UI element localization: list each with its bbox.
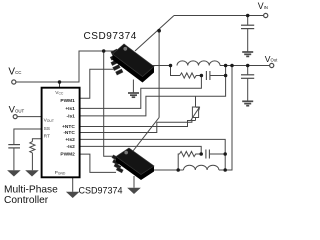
wire phase2 riser to Vout rail bbox=[225, 66, 232, 171]
controller U1 box bbox=[42, 88, 80, 178]
node switch 2 junction bbox=[176, 168, 180, 172]
svg-text:CSD97374: CSD97374 bbox=[84, 31, 137, 42]
svg-text:SS: SS bbox=[44, 126, 50, 132]
capacitor Cin bbox=[241, 25, 254, 28]
wire +Is2 sense bbox=[80, 139, 226, 154]
node rail phase2 junction bbox=[230, 64, 234, 68]
wire Cin stick bbox=[247, 16, 249, 26]
ground U3 bbox=[129, 188, 140, 193]
node rail Is1 junction bbox=[224, 64, 228, 68]
capacitor Cout bbox=[241, 75, 254, 79]
node C1 right junction bbox=[224, 74, 228, 78]
resistor R1 bbox=[180, 73, 201, 78]
wire RC2 sense branch bbox=[178, 154, 179, 170]
ground Pgnd bbox=[67, 192, 78, 197]
wire diagonal Vin to U3 bbox=[133, 118, 159, 152]
wire L2 right stub bbox=[219, 169, 225, 171]
wire +Is1 sense bbox=[80, 76, 202, 109]
thermistor RNTC bbox=[191, 106, 200, 121]
wire Vin vertical distribution bbox=[158, 31, 160, 118]
ground RT resistor bbox=[27, 171, 38, 176]
resistor RT bbox=[30, 142, 35, 153]
ground Cin bbox=[242, 52, 253, 56]
svg-text:CSD97374: CSD97374 bbox=[79, 186, 123, 196]
power stage U2 CSD97374 package bbox=[110, 44, 154, 83]
wire -Is1 sense bbox=[80, 66, 226, 116]
wire Vcc terminal to rail bbox=[16, 51, 114, 82]
node Vcc junction bbox=[58, 80, 62, 84]
wire Cin to ground bbox=[247, 29, 249, 52]
wire switch node 1 bbox=[150, 65, 171, 67]
node VDD junction bbox=[102, 49, 106, 53]
node Cout junction bbox=[246, 64, 250, 68]
node C2 right junction bbox=[223, 152, 227, 156]
wire U2 ground stick bbox=[132, 80, 134, 93]
svg-text:PGND: PGND bbox=[55, 170, 66, 176]
svg-text:+Is2: +Is2 bbox=[65, 137, 75, 143]
capacitor C2 bbox=[206, 150, 210, 159]
resistor R2 bbox=[180, 151, 201, 156]
wire Vcc stub into controller bbox=[59, 82, 61, 88]
node Cin junction bbox=[246, 14, 250, 18]
wire U3 ground stick bbox=[133, 176, 135, 188]
svg-text:PWM1: PWM1 bbox=[60, 98, 75, 104]
ground SS cap bbox=[8, 171, 19, 176]
terminal Vout left bbox=[13, 115, 17, 119]
node Vin diagonal junction bbox=[157, 29, 161, 33]
node switch 1 junction bbox=[169, 64, 173, 68]
wire diagonal U2 to Vin bbox=[135, 16, 174, 52]
wire -Is2 sense bbox=[80, 146, 202, 154]
wire RC2 right link bbox=[209, 153, 225, 155]
wire RC1 sense branch bbox=[171, 66, 181, 76]
wire Cout to ground bbox=[247, 78, 249, 101]
wire switch node 2 bbox=[140, 169, 178, 171]
wire SS to cap bbox=[14, 129, 42, 144]
ground Cout bbox=[242, 101, 253, 105]
wire L2 left stub bbox=[178, 169, 183, 171]
svg-text:-NTC: -NTC bbox=[63, 130, 75, 136]
wire -NTC bbox=[80, 120, 192, 133]
power stage U3 CSD97374 package bbox=[112, 148, 154, 180]
svg-text:RT: RT bbox=[44, 134, 50, 140]
wire PWM1 bbox=[80, 69, 114, 98]
capacitor CSS bbox=[8, 145, 20, 148]
wire thermistor top tap bbox=[195, 96, 197, 105]
svg-text:VCC: VCC bbox=[55, 90, 64, 96]
svg-text:+Is1: +Is1 bbox=[65, 106, 75, 112]
svg-text:+NTC: +NTC bbox=[62, 124, 75, 130]
terminal Vout right bbox=[270, 63, 274, 67]
wire VDD vertical to U3 bbox=[104, 51, 116, 156]
wire SS cap to ground bbox=[13, 148, 15, 170]
ground U2 arrow style bbox=[128, 93, 139, 97]
wire Vin rail bbox=[174, 15, 264, 17]
svg-text:VOUT: VOUT bbox=[44, 117, 54, 123]
svg-text:-Is1: -Is1 bbox=[67, 114, 76, 120]
capacitor C1 bbox=[206, 71, 210, 80]
inductor L1 bbox=[177, 61, 220, 66]
svg-text:PWM2: PWM2 bbox=[60, 152, 75, 158]
svg-text:-Is2: -Is2 bbox=[67, 144, 76, 150]
node RC2 mid junction bbox=[199, 152, 203, 156]
wire +NTC bbox=[80, 121, 196, 127]
wire Vout terminal left bbox=[17, 116, 41, 118]
wire PWM2 bbox=[80, 154, 116, 172]
wire L2 C2 right junction bbox=[224, 154, 226, 170]
terminal Vin bbox=[264, 13, 268, 17]
wire RC1 right link bbox=[210, 75, 226, 77]
svg-text:Controller: Controller bbox=[4, 195, 49, 206]
inductor L2 bbox=[184, 165, 219, 170]
wire RT to resistor bbox=[32, 139, 41, 142]
terminal Vcc bbox=[12, 80, 16, 84]
wire RT resistor to ground bbox=[31, 153, 33, 171]
wire Cout stick bbox=[247, 66, 249, 75]
node RC1 mid junction bbox=[200, 74, 204, 78]
wire Pgnd stick bbox=[72, 177, 74, 192]
wire Vout rail bbox=[220, 65, 270, 67]
node L2 right junction bbox=[223, 168, 227, 172]
